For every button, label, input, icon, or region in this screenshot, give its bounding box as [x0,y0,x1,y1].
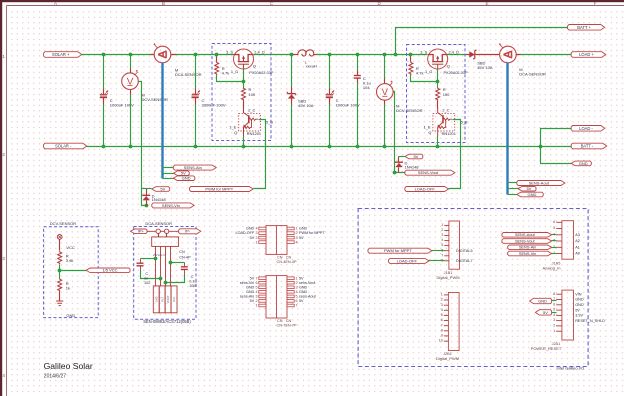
power symbol VCC [57,235,62,240]
pin 3 CN-7EN-7P right [287,286,294,289]
svg-text:VIN: VIN [575,292,582,296]
pin 7 J1B1 [444,255,449,257]
junction [154,257,158,261]
resistor R3 4.7k [410,55,412,62]
svg-text:7: 7 [441,253,443,257]
junction [129,145,133,149]
wire D2 top to 5V [399,156,405,158]
pin 2 J1A5 [556,246,562,248]
junction [290,53,294,57]
svg-text:LOAD -: LOAD - [579,126,593,131]
svg-text:GND: GND [575,298,584,302]
junction [58,269,62,273]
svg-text:2: 2 [255,236,257,240]
transistor Q3 RN1201 [239,108,261,136]
wire R1 bottom to gate node [217,75,244,82]
svg-text:8: 8 [553,292,555,296]
net label SOLAR- [44,143,87,149]
junction [539,145,543,149]
svg-text:2: 2 [441,228,443,232]
svg-text:BATT +: BATT + [577,25,591,30]
wire V1 bottom pin to solar- bus [130,90,132,95]
wire C3 branch [329,55,331,89]
svg-text:3: 3 [441,303,443,307]
wire SENS-Aout to A3 [552,234,557,236]
svg-text:SENS-Vin: SENS-Vin [519,251,536,256]
pin 1 J1A5 [556,253,562,255]
svg-text:4: 4 [441,238,443,242]
wire solar+ bus [82,54,155,56]
pin 2 J2B1 [444,299,449,301]
pin 9 J2B1 [444,335,449,337]
connector J2A1 POWER_RESET [562,290,574,340]
svg-text:POWER_RESET: POWER_RESET [531,346,562,351]
svg-text:3_S: 3_S [226,49,233,54]
svg-text:1: 1 [255,240,257,244]
svg-text:GND: GND [66,313,75,318]
pin 7 J2B1 [444,325,449,327]
pin 10 J2B1 [444,340,449,342]
svg-text:2: 2 [553,245,555,249]
svg-text:sens-Vin: sens-Vin [240,281,254,285]
ammeter A2 DCA-SENSOR [499,43,516,63]
bus wire A2 signals (blue) [506,63,508,195]
module box DCA-SENSOR detail [134,227,196,320]
wire D1 top to 5V [142,188,152,190]
svg-text:GND: GND [154,296,158,302]
svg-text:Q: Q [428,130,431,135]
svg-text:45V 10A: 45V 10A [298,103,314,108]
diode SBD1 45V 10A [287,92,296,99]
wire ammeter right to C2 [171,54,237,56]
svg-text:5: 5 [296,295,298,299]
svg-text:8: 8 [441,328,443,332]
svg-text:1_E: 1_E [424,124,431,129]
pin 5 J1A5 [556,228,562,230]
net label LOAD- [571,126,605,132]
svg-text:VIOUT: VIOUT [166,295,170,303]
svg-text:6: 6 [441,318,443,322]
svg-text:IP+: IP+ [138,229,145,234]
pin 4 CN-4EN-4P right [287,241,294,244]
wire LOAD-OFF to J1B1 pin8 [429,260,445,262]
resistor R5 3.9k [58,251,62,264]
svg-text:4: 4 [255,227,257,231]
diode D2 1N4148 [398,157,400,163]
pin 4 J2B1 [444,309,449,311]
svg-text:Digital_PWM: Digital_PWM [436,356,459,361]
wire inductor to Q2 box [317,54,428,56]
svg-text:A1: A1 [575,246,580,250]
wire PWM for MPPT to J1B1 pin6 [432,250,445,252]
svg-text:5V: 5V [250,276,255,280]
pin 1 J2A1 [556,330,562,332]
svg-text:Q: Q [447,64,450,69]
pin 6 CN-7EN-7P left [259,281,266,284]
pin 3 J1A5 [556,240,562,242]
wire A2 to LOAD+ label [517,54,572,56]
net label PWM for MPPT [190,187,254,192]
svg-text:GND: GND [246,227,255,231]
svg-text:PWM for MPPT: PWM for MPPT [384,248,412,253]
svg-text:5V: 5V [299,236,304,240]
junction [242,145,246,149]
svg-text:1_G: 1_G [231,69,238,74]
svg-text:PX20A02-03P: PX20A02-03P [249,71,274,75]
net label SOLAR+ [44,52,82,58]
svg-text:2_C: 2_C [442,108,449,113]
mosfet Q2 PX20A02-03P [428,49,448,69]
svg-text:4: 4 [255,290,257,294]
svg-text:SENS-Vin: SENS-Vin [162,203,180,208]
junction [194,53,198,57]
svg-text:3: 3 [296,286,298,290]
svg-text:GND: GND [299,290,308,294]
svg-text:4.7k: 4.7k [416,70,424,75]
svg-text:2,4_D: 2,4_D [254,49,265,54]
svg-text:2: 2 [296,281,298,285]
svg-text:102: 102 [144,281,150,285]
net label SENS-Vin (galileo) [508,251,552,256]
net label SENS-Vout [405,170,455,175]
wire C1 branch [103,55,105,89]
junction [102,145,106,149]
connector J2B1 Digital_PWM [448,293,459,351]
pin 1 CN-7EN-7P left [259,304,266,307]
pin 6 J2B1 [444,320,449,322]
svg-text:IP-: IP- [185,229,191,234]
pin 3 J2A1 [556,320,562,322]
svg-text:GND: GND [528,192,537,197]
junction [328,145,332,149]
wire solar- bus [87,146,572,148]
svg-text:DCV-SENSOR: DCV-SENSOR [396,108,423,113]
pin 5 CN-7EN-7P right [287,295,294,298]
power label 5V (bus2) [518,186,536,191]
svg-text:2: 2 [255,299,257,303]
pin 8 J1B1 [444,260,449,262]
net label IP- [179,229,201,234]
wire GND to J2A1 pin7 [552,300,557,302]
power label GND (bus1) [173,176,195,181]
svg-text:5V: 5V [299,299,304,303]
svg-text:1: 1 [296,276,298,280]
svg-text:9: 9 [441,334,443,338]
pin 3 J1B1 [444,235,449,237]
net label SENS-Ain [173,165,216,170]
net label PWM for MPPT (galileo) [368,248,432,253]
power label 5V (V1 clamp) [152,187,170,192]
wire Q2 drain to SBD2 [448,54,467,56]
svg-text:Digital_PWM: Digital_PWM [436,275,459,280]
svg-text:7: 7 [296,304,298,308]
wire R4 to Q4 collector [437,101,439,109]
svg-text:5V: 5V [250,236,255,240]
resistor R2 100 [242,87,246,100]
svg-text:DIGITAL5: DIGITAL5 [456,249,473,253]
junction [169,261,173,265]
net label SENS-Ain (galileo) [508,245,552,250]
svg-text:SOLAR +: SOLAR + [52,52,70,57]
pin 5 J2B1 [444,314,449,316]
wire V2 bottom pin to bus [384,101,386,105]
pin 4 J1B1 [444,240,449,242]
svg-text:5V: 5V [413,154,418,159]
svg-text:SENS-Ain: SENS-Ain [519,245,537,250]
net label BATT- [571,143,607,149]
wire R3 bottom to gate node [411,75,438,82]
svg-text:1N4148: 1N4148 [405,164,420,169]
capacitor C3 1000uF 100V [326,91,334,98]
junction [394,53,398,57]
chip ACS712 [152,237,179,247]
wire Q1 drain to inductor [254,54,295,56]
pin 7 J2A1 [556,299,562,301]
wire Q1 gate down [243,69,245,82]
svg-text:LOAD-OFF: LOAD-OFF [397,258,418,263]
svg-text:6: 6 [296,299,298,303]
svg-text:SENS-Vout: SENS-Vout [418,170,439,175]
svg-text:3: 3 [255,295,257,299]
transistor Q4 RN1201 [433,108,455,136]
diode SBD2 45V 10A [469,50,476,59]
pin 2 CN-4EN-4P right [287,232,294,235]
svg-text:3.3V: 3.3V [575,314,583,318]
svg-text:GND: GND [246,286,255,290]
wire V1 output to SENS-Vin [139,82,147,206]
drawing frame [0,0,624,2]
svg-text:5V: 5V [543,310,548,315]
junction [409,53,413,57]
svg-text:4: 4 [296,240,298,244]
svg-text:CN: CN [286,319,292,323]
wire gate node to R4 [437,82,439,88]
svg-text:104: 104 [363,85,370,90]
svg-text:+5V A G V: +5V A G V [153,253,165,257]
pin 5 J1B1 [444,245,449,247]
wire tap GND [163,178,174,180]
connector J1A5 Analog_In [562,221,574,260]
svg-text:4: 4 [553,313,555,317]
pin 1 CN-4EN-4P right [287,227,294,230]
power label 5V (V2 clamp) [405,154,423,159]
svg-text:RN1201: RN1201 [442,131,456,136]
svg-text:GND: GND [299,286,308,290]
pin 1 CN-4EN-4P left [259,241,266,244]
svg-text:DCA-SENSOR: DCA-SENSOR [145,221,172,226]
mosfet Q1 PX20A02-03P [234,49,254,69]
capacitor C4 0.1u 104 [354,76,361,79]
svg-text:2,4_D: 2,4_D [449,49,460,54]
pin 8 J2B1 [444,330,449,332]
svg-text:0.1u: 0.1u [189,280,196,284]
svg-text:GND: GND [579,161,588,166]
svg-text:Intel Galileo I/O: Intel Galileo I/O [557,365,585,370]
svg-text:3: 3 [255,231,257,235]
wire gate node to R2 [243,82,245,88]
junction [242,80,246,84]
power label GND (bus2) [517,192,543,197]
svg-text:5V: 5V [527,186,532,191]
ground [56,301,63,306]
svg-text:CN: CN [286,255,292,259]
wire V1 top pin [130,55,132,69]
svg-text:Analog_In: Analog_In [542,266,560,271]
svg-text:DCV-SENSOR: DCV-SENSOR [50,221,77,226]
junction [393,171,397,175]
module box Intel Galileo I/O [358,209,588,367]
wire C5 top to pin1 [141,258,156,260]
wire node to 1/5 VCC label [60,270,87,272]
junction [145,204,149,208]
svg-text:6: 6 [553,302,555,306]
pin 5 J2A1 [556,309,562,311]
svg-text:RESET_N_SHLD: RESET_N_SHLD [575,319,605,323]
resistor R4 100 [436,87,440,100]
svg-text:3300uF 100V: 3300uF 100V [202,102,226,107]
junction [436,145,440,149]
svg-text:1: 1 [296,227,298,231]
svg-text:PWM for MPPT: PWM for MPPT [205,186,233,191]
svg-text:3: 3 [296,236,298,240]
wire inductor leads [292,54,299,56]
svg-text:2_C: 2_C [248,108,255,113]
svg-text:PWM for MPPT: PWM for MPPT [299,231,325,235]
wire V2 top pin [384,55,386,79]
capacitor C5 1n 102 [140,259,142,264]
svg-text:5V: 5V [299,276,304,280]
svg-text:3.9k: 3.9k [66,258,74,263]
svg-text:10: 10 [439,339,443,343]
svg-text:3: 3 [441,233,443,237]
svg-text:1_E: 1_E [229,124,236,129]
junction [129,53,133,57]
net label SENS-Aout (galileo) [502,233,552,238]
svg-text:5V: 5V [575,308,580,312]
wire pin stub ammeter left [151,54,155,56]
svg-text:4: 4 [296,290,298,294]
wire C6 top link [171,262,185,264]
svg-text:GND: GND [538,298,547,303]
net label IP+ [131,229,148,234]
pin 3 J2B1 [444,304,449,306]
svg-text:5V: 5V [160,186,165,191]
svg-text:2: 2 [2,152,5,157]
junction [383,145,387,149]
svg-text:Q: Q [253,64,256,69]
svg-text:sens-Ain: sens-Ain [240,295,254,299]
svg-text:CN-4P: CN-4P [179,256,191,260]
svg-text:VCC: VCC [66,245,75,250]
svg-text:3: 3 [2,256,5,261]
svg-text:GND: GND [299,227,308,231]
pin 4 CN-7EN-7P right [287,291,294,294]
svg-text:B: B [162,1,165,6]
wire tap GND load [508,194,517,196]
svg-text:45V 10A: 45V 10A [477,65,493,70]
svg-text:SENS-Vout: SENS-Vout [515,238,536,243]
svg-text:5: 5 [553,308,555,312]
svg-text:sens-Aout: sens-Aout [299,295,316,299]
svg-text:2: 2 [441,298,443,302]
junction [383,53,387,57]
bus wire A1 signals (blue) [161,63,163,179]
pin 6 J2A1 [556,304,562,306]
svg-text:sens-Vout: sens-Vout [299,281,315,285]
svg-text:A0: A0 [575,252,580,256]
wire VCC to R5 [59,240,61,251]
wire SENS-Vin to A0 [552,253,557,255]
current path terminals [147,229,179,233]
wire C4 branch [357,55,359,71]
pin 6 CN-7EN-7P right [287,300,294,303]
svg-text:5: 5 [441,313,443,317]
wire SENS-Ain to A1 [552,247,557,249]
power label 5V (J2A1) [535,310,551,315]
module box LOAD switch [407,45,466,143]
wire 5V to J2A1 pin5 [552,312,557,314]
svg-text:7: 7 [441,323,443,327]
svg-text:4: 4 [441,308,443,312]
svg-text:1: 1 [255,304,257,308]
svg-text:LOAD +: LOAD + [579,52,594,57]
junction [164,281,168,285]
pin 2 CN-7EN-7P left [259,300,266,303]
pin 2 CN-7EN-7P right [287,281,294,284]
wire SBD1 branch [291,55,293,87]
pin 4 J1A5 [556,234,562,236]
svg-text:4.7k: 4.7k [222,70,230,75]
svg-text:A2: A2 [575,239,580,243]
wire R2 to Q3 collector [243,101,245,109]
wire Q3 emitter to solar- bus [243,136,245,147]
svg-text:4: 4 [2,373,5,378]
wire SBD2 to ammeter A2 [476,54,500,56]
net label SENS-Vin [152,203,194,208]
wire C5 bottom link [141,271,161,279]
wire LOAD- tap [541,129,572,147]
net label LOAD-OFF [405,187,449,192]
capacitor C2 3300uF 100V [192,91,200,98]
wire tap SENS-Ain [163,167,174,169]
svg-text:FILT: FILT [160,296,164,302]
svg-text:5: 5 [553,226,555,230]
svg-text:CN-4EN-4P: CN-4EN-4P [276,260,297,264]
svg-text:SEN-08883/ACS712(05B): SEN-08883/ACS712(05B) [143,319,191,324]
svg-text:DCA-SENSOR: DCA-SENSOR [175,72,202,77]
net label BATT+ [568,25,605,31]
capacitor C1 1000uF 100V [100,91,108,98]
wire R6 to ground [59,292,61,301]
wire V2 output to SENS-Vout [394,92,405,173]
svg-text:1n: 1n [144,276,148,280]
svg-text:SENS-Aout: SENS-Aout [529,180,550,185]
svg-text:F: F [594,1,597,6]
module box DCV-SENSOR detail [44,227,99,318]
connector J1B1 Digital_PWM [449,221,460,269]
svg-text:6: 6 [255,281,257,285]
svg-text:3: 3 [553,318,555,322]
svg-text:RN1201: RN1201 [247,131,261,136]
svg-text:1: 1 [2,54,5,59]
svg-text:5_B: 5_B [461,119,468,124]
power label GND (right) [571,161,591,166]
svg-text:1000uF 100V: 1000uF 100V [336,102,360,107]
wire SENS-Vout to A2 [552,240,557,242]
inductor L xxxuH [298,50,314,56]
svg-text:1_G: 1_G [425,69,432,74]
svg-text:SENS-Ain: SENS-Ain [184,165,202,170]
